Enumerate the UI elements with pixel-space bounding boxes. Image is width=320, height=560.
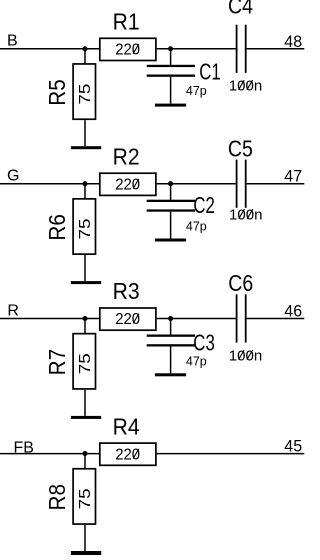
svg-text:R2: R2 — [113, 143, 140, 169]
svg-text:C1: C1 — [199, 59, 221, 85]
resistor R3 — [100, 278, 156, 330]
svg-text:48: 48 — [284, 32, 302, 51]
wire — [170, 184, 172, 200]
junction — [82, 46, 87, 51]
wire — [0, 453, 100, 455]
ground — [71, 281, 101, 284]
wire — [247, 48, 305, 50]
wire — [247, 318, 305, 320]
wire — [84, 454, 86, 469]
resistor R4 — [100, 413, 156, 465]
svg-text:100n: 100n — [229, 207, 263, 224]
svg-text:220: 220 — [115, 446, 140, 463]
junction — [82, 316, 87, 321]
svg-text:45: 45 — [284, 437, 302, 456]
svg-text:R3: R3 — [113, 278, 140, 304]
svg-text:R: R — [7, 302, 19, 319]
svg-text:100n: 100n — [229, 347, 262, 364]
svg-text:B: B — [7, 33, 18, 50]
wire — [170, 49, 172, 65]
wire — [157, 453, 305, 455]
svg-text:G: G — [7, 168, 19, 185]
svg-text:R1: R1 — [113, 9, 140, 35]
capacitor C2 — [147, 192, 215, 234]
wire — [157, 183, 236, 185]
capacitor C1 — [147, 59, 221, 99]
wire — [0, 183, 100, 185]
svg-text:75: 75 — [77, 83, 94, 104]
svg-text:75: 75 — [77, 218, 94, 239]
svg-text:C5: C5 — [228, 135, 253, 161]
resistor R2 — [100, 143, 156, 195]
wire — [84, 525, 86, 551]
svg-text:220: 220 — [115, 311, 140, 328]
svg-text:75: 75 — [77, 488, 94, 509]
wire — [247, 183, 305, 185]
wire — [157, 48, 236, 50]
svg-text:R8: R8 — [44, 484, 70, 511]
resistor R8 — [44, 469, 96, 524]
capacitor C3 — [147, 330, 215, 369]
ground — [155, 239, 186, 242]
svg-text:R5: R5 — [44, 79, 70, 106]
wire — [84, 319, 86, 334]
junction — [168, 181, 173, 186]
ground — [71, 416, 101, 419]
wire — [84, 120, 86, 146]
svg-text:C4: C4 — [228, 0, 253, 18]
svg-text:R7: R7 — [44, 349, 70, 376]
wire — [170, 77, 172, 104]
svg-text:C6: C6 — [228, 270, 253, 296]
resistor R6 — [44, 199, 96, 254]
wire — [0, 318, 100, 320]
wire — [84, 255, 86, 281]
svg-text:75: 75 — [77, 353, 94, 374]
wire — [84, 390, 86, 416]
svg-text:220: 220 — [115, 42, 140, 59]
ground — [155, 373, 186, 376]
junction — [82, 451, 87, 456]
resistor R7 — [44, 334, 96, 389]
resistor R1 — [100, 9, 156, 61]
capacitor C4 — [228, 0, 262, 94]
resistor R5 — [44, 64, 96, 119]
svg-text:47p: 47p — [186, 354, 207, 368]
svg-text:C3: C3 — [193, 330, 215, 356]
svg-text:47p: 47p — [186, 84, 207, 98]
svg-text:47p: 47p — [186, 220, 207, 234]
wire — [0, 48, 100, 50]
ground — [71, 146, 101, 149]
junction — [82, 181, 87, 186]
svg-text:R6: R6 — [44, 214, 70, 241]
svg-text:220: 220 — [115, 176, 140, 193]
wire — [84, 49, 86, 64]
svg-text:100n: 100n — [229, 78, 262, 95]
capacitor C5 — [228, 135, 263, 223]
junction — [168, 316, 173, 321]
ground — [155, 104, 186, 107]
svg-text:47: 47 — [284, 167, 302, 186]
capacitor C6 — [228, 270, 262, 364]
junction — [168, 46, 173, 51]
wire — [170, 347, 172, 374]
ground — [71, 551, 101, 555]
wire — [170, 319, 172, 335]
wire — [170, 212, 172, 239]
svg-text:R4: R4 — [113, 413, 140, 439]
wire — [84, 184, 86, 199]
svg-text:C2: C2 — [193, 192, 215, 218]
wire — [157, 318, 236, 320]
svg-text:46: 46 — [284, 302, 302, 321]
